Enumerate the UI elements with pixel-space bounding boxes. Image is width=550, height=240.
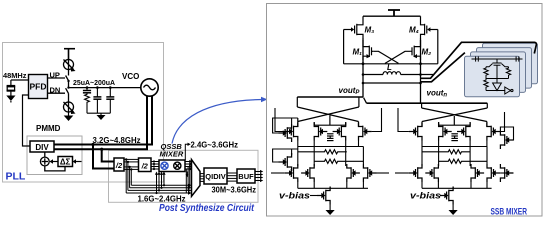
right quad cap stack (451, 134, 458, 141)
tail transistor (left half) (317, 187, 330, 205)
mixer output wires right (185, 162, 192, 170)
card 4 (back) (483, 43, 538, 84)
arrowheads mixer outputs into MUX (189, 160, 192, 171)
right quad mid bar (439, 122, 471, 125)
down arrow right of mixer (186, 172, 189, 178)
adder feedback wire (45, 166, 65, 171)
VDD supply (mixer) (388, 10, 400, 16)
quad mid bar center riser (329, 116, 331, 126)
UP switch (66, 76, 70, 83)
1.6G bus horizontal lines (126, 185, 190, 193)
diff source drops (298, 182, 364, 188)
svg-text:M₂: M₂ (422, 48, 432, 57)
BUF output arrows (255, 170, 263, 182)
right column bias transistor lower (500, 164, 513, 182)
right diff pair Ta (409, 164, 422, 182)
loop filter branch 2 (C) (93, 86, 101, 113)
node wire (68, 81, 70, 88)
bus arrowheads into MUX (188, 184, 192, 195)
svg-text:48MHz: 48MHz (3, 73, 27, 80)
junction dots on /2 wires (125, 158, 133, 170)
Q1 gate feed (275, 108, 285, 132)
resistor R upper (left half) (298, 150, 347, 154)
inset center vertical (496, 65, 498, 78)
SSB mixer outer box (267, 4, 543, 217)
inset resistor left (484, 67, 488, 79)
svg-text:BUF: BUF (238, 172, 254, 181)
MUX trapezoid (192, 160, 201, 197)
wire A drop to /2 lower input (93, 145, 114, 169)
adder (40, 152, 49, 166)
transistor M2 (410, 40, 420, 60)
junction dot column B (419, 62, 422, 65)
cross coupling wires M1/M2 (373, 51, 410, 63)
right quad Q4 (487, 123, 500, 141)
inset inverter (493, 79, 502, 91)
diff pair Ta (285, 164, 298, 182)
svg-text:/2: /2 (141, 161, 149, 170)
inset resistor lower left (484, 79, 488, 91)
crystal (7, 80, 16, 96)
svg-text:2.4G~3.6GHz: 2.4G~3.6GHz (191, 141, 239, 150)
diff pair Tc (347, 164, 360, 182)
svg-text:M₃: M₃ (365, 26, 375, 35)
loop filter bottom rail (87, 112, 110, 114)
M4 gate drop wire (437, 30, 439, 64)
Q4 gate feed (372, 108, 382, 132)
QSSB mixer box (159, 160, 185, 172)
loop filter branch 1 (R+C) (83, 86, 91, 113)
svg-text:/2: /2 (115, 161, 123, 170)
diff source rail (298, 187, 368, 189)
svg-text:L: L (387, 63, 392, 72)
right Q4 gate feed (500, 112, 505, 132)
right quad drain stubs (422, 122, 487, 128)
bus drops from /2#1 outputs (126, 159, 131, 193)
svg-text:Post Synthesize Circuit: Post Synthesize Circuit (159, 202, 254, 214)
wire delta-sigma to adder (arrow) (49, 159, 58, 163)
PMMD box (27, 136, 82, 175)
junction dots /2#2 outputs (153, 160, 155, 170)
quad cap stack (327, 134, 334, 141)
diff pair Tb (301, 164, 314, 182)
UP wire (48, 77, 66, 79)
right Td drain vertical (486, 147, 488, 165)
inset center transistor (486, 59, 509, 67)
divider /2 second (139, 158, 152, 172)
svg-text:QIDIV: QIDIV (205, 172, 225, 181)
ribbon upper line + top band (421, 42, 536, 78)
inset resistor right (506, 67, 510, 79)
inset cap right (516, 56, 519, 61)
svg-text:PLL: PLL (6, 171, 26, 183)
mid connector line (298, 146, 364, 148)
tail drain to rail (329, 187, 331, 189)
voutp rail (297, 96, 363, 98)
Ta gate line (271, 172, 285, 174)
right quad X diagonal 1 (422, 108, 487, 122)
DN wire (48, 92, 66, 94)
junction B (100, 148, 103, 151)
svg-text:ΔΣ: ΔΣ (60, 158, 71, 167)
resistor R lower (right half) (439, 159, 487, 163)
inset mid wire (486, 78, 509, 80)
mixer symbol black (174, 162, 181, 169)
left column bias transistor upper (273, 118, 298, 133)
DIV block (30, 141, 54, 152)
right quad right stub (486, 103, 488, 108)
wire cs-up to switch (68, 70, 70, 76)
column A (M1/M3 to voutp) (362, 38, 364, 97)
svg-text:3.2G~4.8GHz: 3.2G~4.8GHz (93, 136, 141, 145)
ground under loop filter (97, 113, 106, 120)
column B (M2/M4 to voutn) (420, 38, 422, 103)
svg-text:PMMD: PMMD (36, 124, 61, 133)
quad mid bar (314, 122, 346, 125)
wire to cs-down (68, 93, 70, 102)
current source up (charge pump) (64, 59, 76, 72)
right diff pair Tc (471, 164, 484, 182)
VCO circle (141, 79, 158, 96)
v-bias wire (left) (310, 195, 317, 197)
card 3 (477, 48, 532, 89)
right quad source drops (422, 141, 487, 167)
right diff pair Tb (425, 164, 438, 182)
delta-sigma input arrow (73, 159, 82, 163)
BUF block (237, 169, 255, 183)
tail transistor (right half) (440, 187, 453, 205)
PLL outer box (3, 43, 164, 183)
wires /2#2 to QSSB mixer (151, 162, 159, 170)
VDD supply (64, 49, 75, 60)
2.4G~3.6GHz tap wire (185, 143, 190, 160)
right diff source rail (422, 187, 492, 189)
junction dots inductor line (362, 73, 422, 84)
wire 48MHz to PFD (11, 79, 29, 81)
transistor M3 (344, 16, 363, 38)
charge pump output wire to VCO (69, 87, 141, 89)
Post Synthesize Circuit box (109, 150, 259, 202)
inset top wire (472, 58, 523, 60)
inset buffer (486, 87, 513, 94)
quad X diagonal 1 (297, 107, 358, 122)
loop filter branch 3 (C) (106, 86, 114, 113)
M3 gate drop wire (343, 30, 345, 64)
quad Q2 (314, 123, 327, 141)
right Td gate line (500, 172, 513, 174)
svg-text:PFD: PFD (30, 82, 47, 92)
svg-text:v-bias: v-bias (279, 191, 310, 201)
quad X diagonal 2 (298, 107, 359, 122)
Td drain vertical (362, 147, 364, 165)
ground (left half) (326, 205, 335, 216)
right quad left stub (421, 103, 423, 108)
svg-text:SSB MIXER: SSB MIXER (491, 207, 528, 218)
delta-sigma block (58, 157, 73, 167)
junction A (91, 143, 94, 146)
quad Q4 (359, 123, 372, 141)
crosshatch verticals right of mixer (186, 162, 191, 194)
quad left stub (296, 97, 298, 107)
quad Q3 (333, 123, 346, 141)
VCO output wire B (to DIV, drop to /2) (54, 96, 147, 149)
right quad X diagonal 2 (422, 108, 487, 122)
svg-text:VCO: VCO (122, 72, 139, 81)
svg-text:M₄: M₄ (409, 26, 419, 35)
gate tie line (344, 63, 438, 65)
svg-text:30M~3.6GHz: 30M~3.6GHz (212, 185, 257, 194)
left column bias transistor lower (273, 149, 298, 162)
riser arrowheads into mixer (155, 172, 166, 175)
ground (right half) (449, 205, 458, 216)
resistor R lower (left half) (314, 159, 363, 163)
resistor R upper (right half) (422, 150, 471, 154)
transistor M4 (421, 16, 438, 38)
svg-text:DIV: DIV (35, 143, 49, 152)
right diff pair Td (487, 164, 500, 182)
quad right stub (358, 97, 360, 107)
right Ta gate line (395, 172, 409, 174)
right quad Q2 (439, 123, 452, 141)
quad Q1 (285, 123, 298, 141)
svg-text:M₁: M₁ (353, 48, 363, 57)
QIDIV block (204, 168, 227, 184)
quad source drops (298, 141, 359, 167)
right column bias transistor upper (500, 127, 513, 140)
svg-text:v-bias: v-bias (410, 191, 441, 201)
MUX output wires (200, 174, 204, 182)
right quad Q1 (409, 123, 422, 141)
junction dots on tie line (362, 62, 365, 65)
right tail drain to rail (452, 187, 454, 189)
VCO output wire A (to DIV, drop to /2) (54, 96, 152, 145)
right quad mid bar center riser (453, 116, 455, 125)
svg-text:MIXER: MIXER (160, 150, 184, 159)
right quad Q3 (457, 123, 470, 141)
PFD block (29, 75, 48, 99)
ground under crystal (6, 96, 15, 103)
inset cap left (476, 56, 479, 61)
Td gate line (377, 172, 390, 174)
diff pair Td (363, 164, 376, 182)
riser junction dots (155, 184, 165, 194)
4 wires /2 to /2 (124, 159, 139, 169)
quad drain stubs (298, 118, 359, 127)
voutn rail (367, 102, 488, 104)
bias line (363, 82, 421, 84)
top rail (363, 15, 421, 17)
card 1 (front) (465, 56, 520, 97)
DN switch (66, 86, 70, 93)
mixer bottom input risers (157, 174, 165, 193)
PFD feedback input wire (23, 95, 31, 146)
v-bias wire (right) (440, 195, 441, 197)
wire B drop to /2 upper input (102, 149, 114, 161)
svg-text:25uA~200uA: 25uA~200uA (73, 80, 115, 87)
right mid connector line (422, 146, 487, 148)
ribbon lower line (behind cards) (421, 53, 465, 82)
ground under charge pump (64, 113, 74, 121)
voutn rail left step (364, 98, 367, 104)
right diff source drops (422, 182, 487, 188)
blue callout arrow (172, 97, 268, 144)
divider /2 first (114, 158, 124, 171)
QIDIV to BUF wires (227, 173, 237, 181)
inductor L (363, 72, 433, 75)
right Q1 gate feed (398, 108, 409, 132)
mixer symbol blue (161, 162, 168, 169)
current source down (charge pump) (64, 101, 76, 114)
card 2 (471, 52, 526, 93)
transistor M1 (363, 40, 373, 60)
